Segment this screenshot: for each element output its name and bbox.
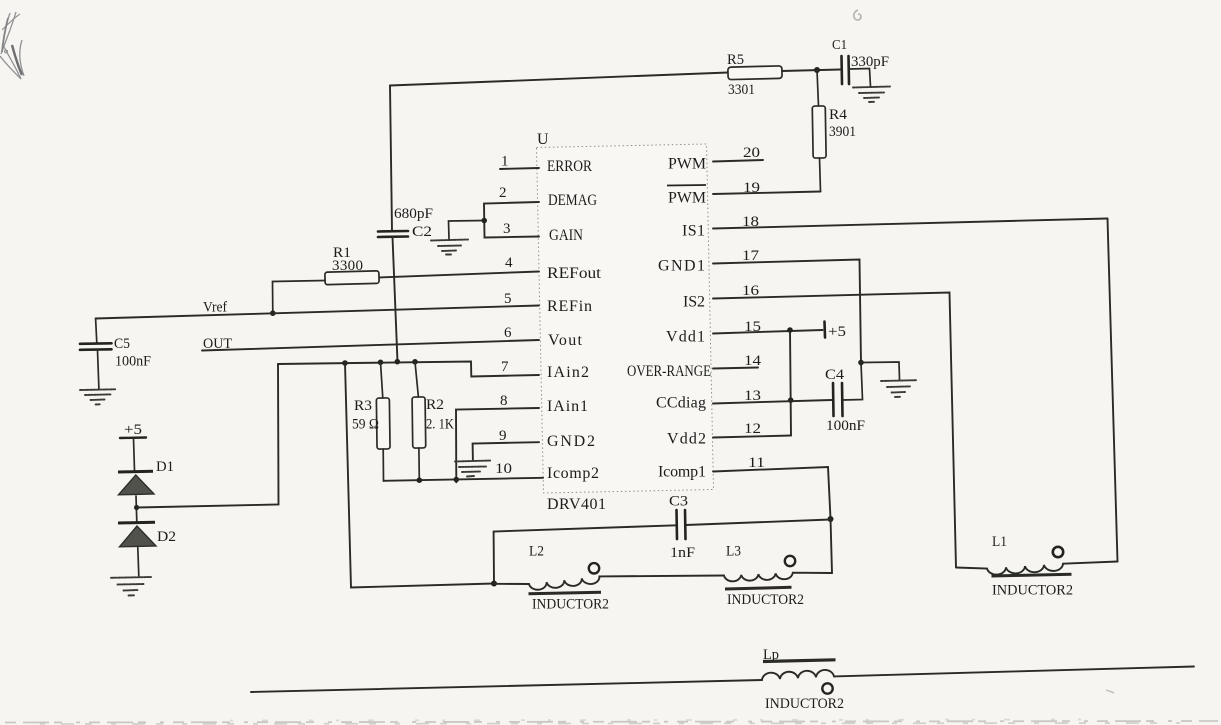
svg-text:680pF: 680pF [394, 206, 433, 222]
R1 left lead wire [273, 281, 326, 314]
svg-text:330pF: 330pF [851, 54, 889, 70]
svg-text:2: 2 [499, 185, 507, 201]
capacitor C4 plates [833, 383, 843, 416]
svg-text:L2: L2 [529, 544, 544, 560]
svg-text:D2: D2 [157, 529, 176, 545]
junction dot GND1/C4 [858, 360, 864, 366]
svg-text:Vref: Vref [203, 300, 227, 316]
top net wire from C2 to R5 [390, 73, 728, 86]
svg-text:13: 13 [744, 388, 761, 404]
pin 7 wire IAin2 net [278, 362, 539, 377]
junction dot D1/D2 [134, 505, 139, 510]
pencil smudge top-left corner [0, 12, 24, 79]
R2 top lead [415, 362, 418, 397]
svg-text:C1: C1 [832, 38, 847, 53]
svg-text:15: 15 [744, 319, 761, 335]
svg-text:16: 16 [742, 283, 760, 299]
pin 2 wire [484, 202, 539, 238]
svg-text:+5: +5 [124, 422, 142, 438]
svg-text:R5: R5 [727, 52, 744, 68]
pin 15 wire Vdd1 to +5 [713, 330, 823, 334]
svg-text:REFin: REFin [547, 298, 592, 315]
R2 bottom lead [418, 448, 420, 480]
+5 supply bar right [823, 322, 826, 338]
svg-text:OUT: OUT [203, 336, 232, 352]
svg-text:8: 8 [500, 393, 508, 409]
pin 20 stub [713, 160, 763, 162]
svg-text:GND1: GND1 [658, 258, 705, 275]
svg-text:59 Ω: 59 Ω [352, 417, 379, 433]
L2 polarity circle [589, 563, 599, 573]
pin 5 wire Vref net [96, 306, 539, 319]
L3 polarity circle [785, 556, 795, 566]
inductor Lp [762, 670, 834, 680]
svg-text:IS1: IS1 [682, 223, 705, 240]
ground at C5 [80, 389, 116, 404]
bottom scan edge band [5, 720, 1218, 725]
junction dot L2 left [491, 581, 497, 587]
resistor R1 body [325, 271, 379, 285]
R4 bottom lead wire [820, 158, 821, 192]
right loop vertical wire [1108, 219, 1118, 562]
pin 8 wire [456, 408, 539, 482]
svg-text:11: 11 [748, 455, 765, 471]
svg-text:12: 12 [744, 421, 761, 437]
ground at pins 2-3 [431, 240, 468, 255]
pin 12 wire Vdd2 [713, 436, 791, 438]
pin 19 wire to R4 [713, 192, 821, 195]
svg-text:GND2: GND2 [547, 433, 595, 450]
pin 17 wire GND1 [713, 260, 861, 363]
svg-text:3: 3 [503, 221, 511, 237]
pin 4 wire to R1 [379, 272, 539, 278]
svg-text:3300: 3300 [332, 258, 363, 274]
pin 6 wire OUT net [202, 340, 539, 351]
svg-text:4: 4 [505, 255, 513, 271]
junction dot R2 top [412, 359, 418, 365]
junction dot demag/gain [481, 218, 487, 224]
svg-text:IAin2: IAin2 [547, 364, 589, 381]
junction dot IAin2/D branch left end [342, 360, 348, 366]
ground at C4/GND1 [881, 380, 916, 397]
Lp polarity circle [822, 683, 832, 693]
svg-text:1nF: 1nF [670, 545, 695, 561]
pin 13 wire to C4 [713, 400, 832, 404]
svg-text:100nF: 100nF [826, 418, 865, 434]
svg-text:INDUCTOR2: INDUCTOR2 [532, 597, 609, 613]
pin 10 wire [384, 478, 544, 481]
svg-text:DEMAG: DEMAG [548, 192, 597, 209]
svg-text:Icomp2: Icomp2 [547, 465, 599, 482]
svg-text:U: U [537, 131, 549, 148]
svg-text:INDUCTOR2: INDUCTOR2 [992, 583, 1073, 599]
wire D junction to IAin2 branch [137, 364, 279, 508]
diode D1 [118, 471, 154, 495]
svg-text:GAIN: GAIN [549, 227, 583, 244]
inductor L3 [724, 573, 832, 582]
pin 1 stub [500, 168, 539, 169]
resistor R2 body [412, 397, 426, 448]
wire D2 to ground [138, 548, 139, 577]
wire IAin2 branch down to L2 [345, 363, 494, 588]
wire R5 to C1 [782, 70, 840, 72]
C3 wire left segment and drop [494, 525, 677, 583]
IC U1 DRV401 body [537, 144, 714, 493]
svg-text:IS2: IS2 [683, 294, 705, 311]
svg-text:DRV401: DRV401 [547, 496, 606, 513]
svg-text:INDUCTOR2: INDUCTOR2 [765, 696, 844, 712]
svg-text:OVER-RANGE: OVER-RANGE [627, 363, 711, 380]
resistor R5 body [728, 66, 782, 80]
R3 bottom lead [382, 449, 384, 481]
svg-text:3301: 3301 [728, 82, 755, 98]
junction dot R2 bottom [417, 477, 423, 483]
Vdd vertical wire [790, 330, 791, 436]
junction dot C3/pin11 [828, 516, 834, 522]
R4 top lead wire [817, 70, 819, 106]
L2 core bar [529, 592, 602, 594]
inductor L1 [956, 564, 1063, 575]
svg-text:D1: D1 [156, 459, 174, 475]
pin 14 stub [713, 368, 758, 369]
L1 right lead wire [1063, 562, 1118, 564]
C5 lower lead [98, 351, 99, 389]
ground at pin 9 [455, 461, 491, 477]
pin 18 wire IS1 to right loop [713, 219, 1108, 229]
GND1 node stub to ground [861, 362, 900, 380]
capacitor C3 plates [677, 510, 686, 539]
svg-text:19: 19 [743, 180, 760, 196]
junction dot CCdiag/Vdd [788, 397, 794, 403]
svg-text:2. 1K: 2. 1K [426, 417, 454, 433]
R3 top lead [381, 362, 383, 398]
svg-text:6: 6 [504, 325, 512, 341]
L1 polarity circle [1053, 547, 1063, 557]
svg-text:17: 17 [742, 248, 760, 264]
L1 core bar [992, 574, 1072, 576]
resistor R4 body [812, 106, 826, 158]
junction dot R5/C1/R4 node [814, 67, 820, 73]
svg-text:9: 9 [499, 428, 507, 444]
svg-text:REFout: REFout [547, 265, 602, 282]
capacitor C5 plates [80, 343, 112, 350]
ground at C1 [853, 87, 890, 103]
wire +5 to D1 [134, 439, 135, 471]
svg-text:IAin1: IAin1 [547, 398, 588, 415]
diode D2 [118, 522, 156, 547]
junction dot pin8 vertical on pin10 wire [454, 477, 460, 483]
scan specks top [854, 10, 1114, 693]
bottom primary wire right segment [834, 667, 1194, 677]
svg-text:18: 18 [742, 214, 759, 230]
pin 19 PWM overline [667, 184, 706, 187]
L3 core bar [725, 587, 792, 589]
junction dot Vdd1 [787, 327, 793, 333]
svg-text:L3: L3 [726, 544, 741, 560]
svg-text:R2: R2 [426, 397, 444, 413]
svg-text:R3: R3 [354, 398, 372, 414]
pin 9 wire [473, 442, 539, 460]
svg-text:C4: C4 [825, 367, 845, 383]
svg-text:20: 20 [743, 145, 760, 161]
svg-text:7: 7 [501, 359, 509, 375]
svg-text:3901: 3901 [829, 124, 856, 140]
junction dot C2/IAin2 [395, 359, 401, 365]
svg-text:PWM: PWM [668, 156, 706, 173]
junction dot R1/Vref [270, 310, 276, 316]
C2 vertical wire lower [393, 237, 398, 362]
inductor L2 [494, 576, 724, 590]
svg-text:INDUCTOR2: INDUCTOR2 [727, 592, 804, 608]
wire D1 to junction [135, 496, 138, 522]
C4 right lead to GND1 node [843, 363, 863, 401]
node demag-gain to ground wire [449, 221, 485, 240]
svg-text:C3: C3 [669, 494, 688, 510]
capacitor C1 plates [842, 56, 850, 84]
capacitor C2 plates [378, 231, 408, 237]
svg-text:Vdd1: Vdd1 [666, 329, 705, 346]
wire C1 to ground [850, 69, 871, 87]
+5 supply left bar [120, 436, 146, 439]
ground at D2 [111, 577, 151, 596]
svg-text:CCdiag: CCdiag [656, 395, 706, 412]
svg-text:Icomp1: Icomp1 [658, 464, 706, 481]
svg-text:100nF: 100nF [115, 354, 151, 370]
junction dot R3 top [378, 360, 384, 366]
svg-text:ERROR: ERROR [547, 158, 592, 175]
svg-text:+5: +5 [828, 324, 846, 340]
svg-text:1: 1 [501, 154, 509, 170]
svg-text:Vdd2: Vdd2 [667, 431, 706, 448]
C3 wire right segment [686, 520, 831, 526]
svg-text:C2: C2 [412, 224, 432, 240]
bottom primary wire left segment [251, 680, 762, 692]
pin 11 wire Icomp1 [713, 467, 832, 573]
svg-text:14: 14 [744, 353, 762, 369]
svg-text:5: 5 [504, 291, 512, 307]
svg-text:10: 10 [495, 461, 512, 477]
resistor R3 body [376, 398, 390, 449]
Lp core bar [763, 660, 836, 662]
pin 16 wire IS2 [713, 293, 956, 568]
svg-text:C5: C5 [114, 336, 130, 352]
svg-text:R4: R4 [829, 107, 848, 123]
svg-text:PWM: PWM [668, 190, 706, 207]
C2 vertical wire upper [390, 86, 392, 232]
svg-text:Vout: Vout [548, 332, 583, 349]
capacitor C5 upper lead [96, 319, 97, 344]
svg-text:L1: L1 [992, 534, 1007, 550]
